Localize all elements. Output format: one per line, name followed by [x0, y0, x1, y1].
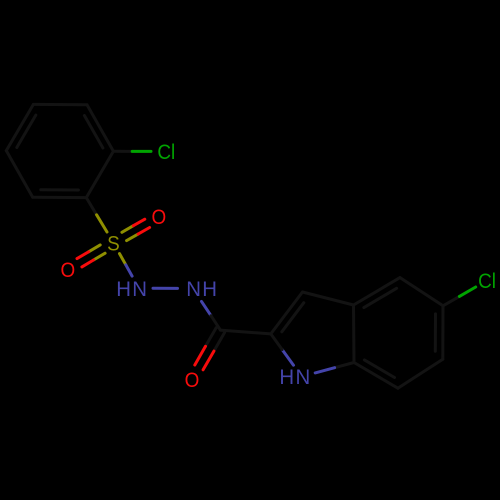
- sulfonyl S=O upper: [122, 219, 150, 240]
- svg-text:O: O: [152, 206, 167, 229]
- indole bond C3-C3a: [303, 292, 354, 305]
- bond C1-S: [86, 198, 107, 232]
- indole bond C7a-N1: [315, 363, 354, 373]
- svg-text:O: O: [185, 369, 200, 392]
- hydrazide bond N-N: [153, 287, 178, 290]
- indole bond C7=C7a double: [354, 360, 398, 388]
- svg-text:HN: HN: [116, 277, 148, 301]
- svg-text:Cl: Cl: [478, 270, 496, 293]
- svg-text:NH: NH: [186, 278, 218, 302]
- bond C2-Cl chloro: [113, 150, 151, 153]
- indole fusion bond C3a-C7a: [352, 305, 356, 363]
- indole bond C6-C7: [398, 359, 443, 388]
- benzene bond C2=C3 double: [84, 105, 113, 152]
- svg-text:S: S: [107, 232, 120, 255]
- indole bond N1-C2: [271, 334, 294, 365]
- indole bond C3a=C4 double: [354, 278, 401, 308]
- bond N-C carbonyl: [202, 301, 221, 330]
- indole bond C5=C6 double: [435, 306, 443, 359]
- svg-text:O: O: [60, 259, 75, 282]
- benzene bond C5-C6: [6, 151, 32, 198]
- bond carbonyl-C2 indole: [220, 330, 270, 334]
- carbonyl C=O: [195, 328, 225, 370]
- sulfonyl S=O lower: [77, 245, 105, 267]
- indole bond C2=C3 double: [271, 292, 304, 334]
- benzene bond C1-C2: [86, 151, 113, 197]
- bond S-N: [120, 254, 133, 277]
- benzene bond C4=C5 double: [6, 104, 36, 150]
- bond C5-Cl chloro: [443, 287, 476, 306]
- benzene bond C3-C4: [33, 103, 87, 106]
- svg-text:Cl: Cl: [157, 141, 175, 164]
- svg-text:HN: HN: [279, 366, 311, 390]
- indole bond C4-C5: [400, 278, 443, 306]
- benzene bond C6=C1 double: [33, 190, 87, 198]
